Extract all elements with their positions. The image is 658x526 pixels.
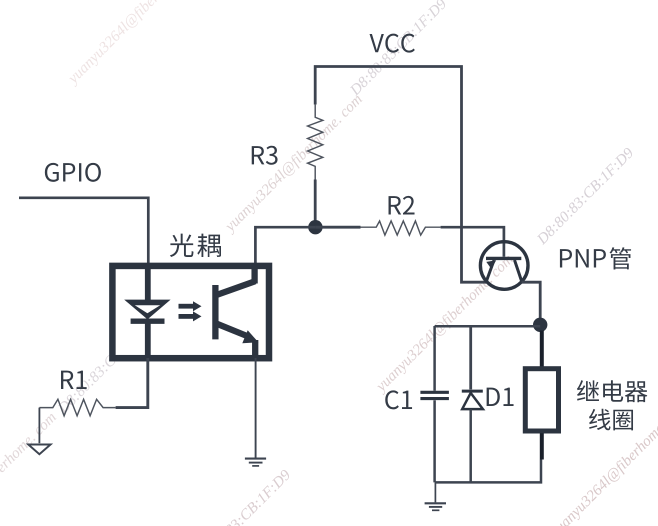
wire R1 to ground triangle [38, 408, 40, 444]
label R3 [252, 146, 265, 164]
transistor Q1 emitter arrow (PNP) [486, 260, 496, 269]
optocoupler light arrow 2 [179, 314, 194, 319]
wire junction to optocoupler collector pin [255, 227, 315, 263]
optocoupler LED anode lead [145, 266, 151, 301]
relay coil bottom lead (thick) [540, 433, 544, 459]
wire optocoupler emitter pin to ground [255, 358, 257, 458]
transistor Q1 base bar [486, 257, 521, 260]
node VCC label [370, 34, 384, 52]
resistor R2 [361, 221, 441, 235]
junction node: PNP collector / C1 / D1 / relay [533, 318, 547, 332]
svg-text:yuanyu3264l@fiberhome. com: yuanyu3264l@fiberhome. com [371, 251, 516, 396]
optocoupler LED triangle [124, 300, 170, 320]
ground triangle at R1 [28, 445, 50, 455]
transistor Q1 emitter leg [486, 260, 494, 282]
diode D1 bottom lead [469, 409, 472, 482]
wire optocoupler cathode pin to R1 [116, 358, 148, 408]
optocoupler LED cathode lead [145, 321, 151, 358]
transistor Q1 collector leg [515, 260, 522, 282]
svg-text:yuanyu3264l@fiberhome. com: yuanyu3264l@fiberhome. com [63, 0, 208, 88]
wire PNP collector to junction 2 [522, 282, 541, 318]
svg-text:D8:80:83:CB:1F:D9: D8:80:83:CB:1F:D9 [190, 466, 294, 526]
wire bottom rail C1/D1/relay [435, 460, 541, 483]
capacitor C1 top lead [433, 326, 436, 391]
wire GPIO to optocoupler anode [19, 198, 148, 263]
relay coil top lead (thick) [540, 331, 544, 367]
wire R3 bottom to junction [314, 180, 317, 228]
wire junction2 left rail to C1 [435, 325, 541, 328]
label R2 [389, 196, 402, 214]
wire VCC rail: R3 top, across, down to PNP emitter [315, 67, 486, 283]
optocoupler light arrow 1 [179, 304, 194, 309]
label 继电器 线圈 [577, 380, 599, 401]
capacitor C1 plate bottom [420, 397, 449, 400]
label R1 [61, 371, 74, 389]
transistor Q1 PNP circle [480, 242, 528, 290]
optocoupler LED cathode bar [131, 319, 165, 324]
ground earth below C1 rail [434, 483, 436, 502]
svg-text:yuanyu3264l@fiberhome. com: yuanyu3264l@fiberhome. com [220, 91, 365, 236]
optocoupler phototransistor collector [217, 281, 255, 295]
svg-text:D8:80:83:CB:1F:D9: D8:80:83:CB:1F:D9 [533, 144, 637, 248]
node GPIO label [45, 163, 59, 182]
svg-text:yuanyu3264l@fiberhome. com: yuanyu3264l@fiberhome. com [545, 397, 658, 526]
capacitor C1 bottom lead [433, 400, 436, 482]
optocoupler U1 box [112, 266, 269, 358]
diode D1 cathode bar [462, 390, 483, 393]
label PNP管 [560, 249, 572, 267]
optocoupler phototransistor base bar [212, 285, 218, 339]
wire junction to R2 [315, 226, 360, 229]
resistor R3 [308, 104, 323, 181]
relay coil body [525, 369, 558, 431]
capacitor C1 plate top [420, 391, 449, 394]
label C1 [385, 390, 399, 409]
diode D1 triangle [462, 393, 483, 409]
label 光耦 [170, 234, 194, 257]
resistor R1 [39, 399, 115, 416]
label D1 [487, 388, 500, 406]
ground earth below optocoupler [245, 458, 266, 460]
wire R2 to PNP base [441, 227, 504, 257]
diode D1 top lead [469, 326, 472, 389]
optocoupler phototransistor emitter [217, 324, 247, 336]
junction node: R3 / opto collector / R2 [308, 220, 322, 234]
svg-text:yuanyu3264l@fiberhome. com: yuanyu3264l@fiberhome. com [0, 409, 60, 526]
